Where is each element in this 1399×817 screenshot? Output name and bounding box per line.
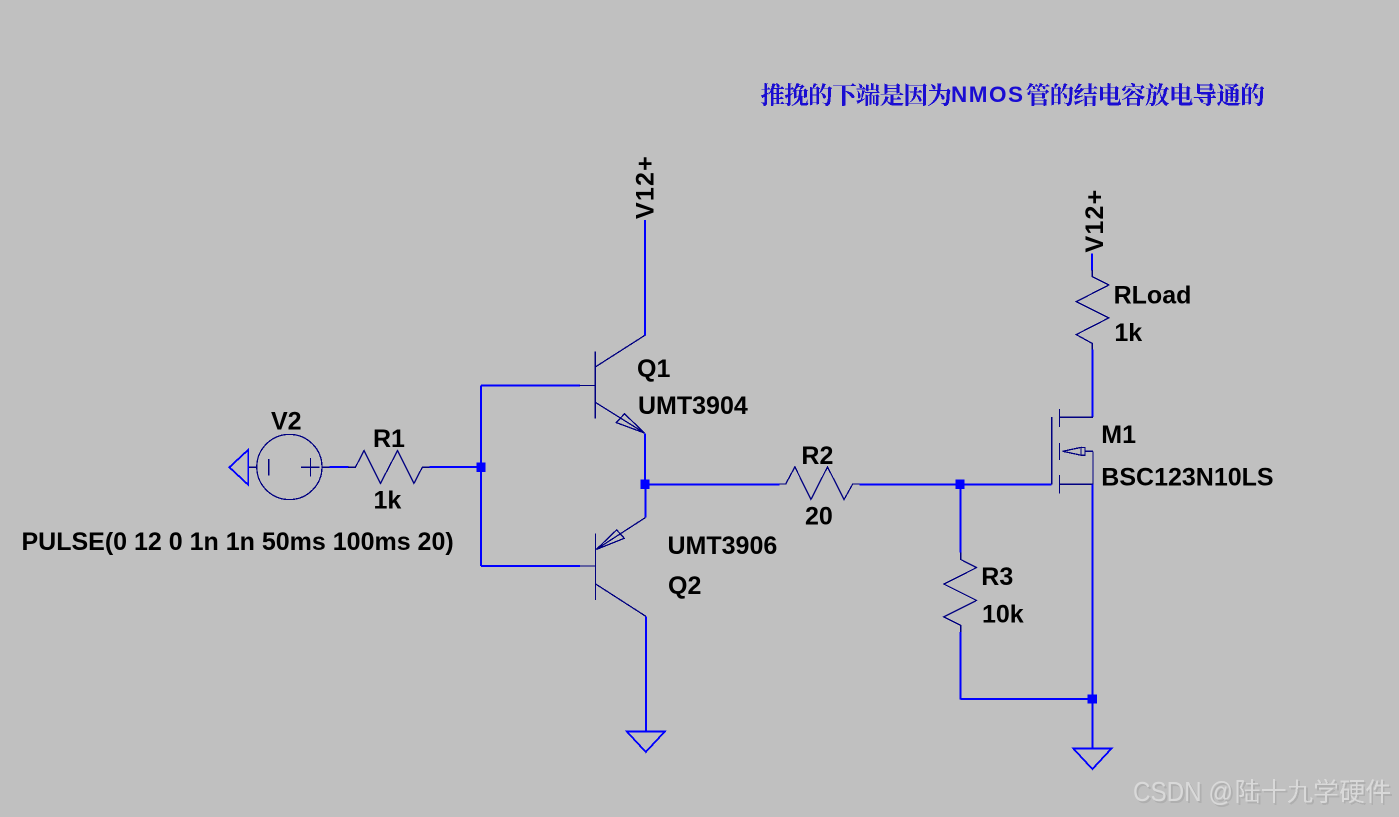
svg-text:V12+: V12+ <box>1081 189 1109 253</box>
node gate junction <box>955 480 964 489</box>
wire Q1 emitter to output node <box>644 433 646 484</box>
resistor R3 <box>944 552 977 632</box>
svg-text:R1: R1 <box>373 425 405 453</box>
svg-text:M1: M1 <box>1101 421 1136 449</box>
transistor M1 NMOS <box>1052 409 1093 494</box>
svg-text:R2: R2 <box>801 442 833 470</box>
wire bottom rail <box>961 698 1093 700</box>
resistor R1 <box>348 451 430 484</box>
svg-text:RLoad: RLoad <box>1114 282 1192 310</box>
svg-text:V2: V2 <box>271 408 302 436</box>
wire RLoad to M1 drain <box>1091 350 1093 417</box>
wire output node to R2 <box>645 483 780 485</box>
svg-text:Q1: Q1 <box>637 355 670 383</box>
wire V12+ to RLoad <box>1091 254 1093 271</box>
svg-text:20: 20 <box>805 503 833 531</box>
wire Q2 collector to ground <box>645 616 647 731</box>
wire node to R3 <box>960 484 962 552</box>
svg-text:NMOS: NMOS <box>951 82 1025 107</box>
svg-text:R3: R3 <box>981 563 1013 591</box>
svg-text:V12+: V12+ <box>632 155 660 219</box>
node output junction <box>640 480 649 489</box>
svg-text:1k: 1k <box>1114 319 1142 347</box>
wire R2 to gate node <box>860 483 1052 485</box>
svg-text:BSC123N10LS: BSC123N10LS <box>1101 463 1273 491</box>
wire to Q2 base <box>481 565 580 567</box>
wire to Q1 base <box>481 384 580 386</box>
voltage source V2 <box>257 434 322 499</box>
wire Q1 collector to V12+ <box>644 220 646 335</box>
svg-text:PULSE(0 12 0 1n 1n 50ms 100ms: PULSE(0 12 0 1n 1n 50ms 100ms 20) <box>22 528 454 556</box>
svg-text:UMT3906: UMT3906 <box>668 532 778 560</box>
wire M1 source to ground <box>1091 484 1093 749</box>
title text part 2 <box>1027 83 1050 106</box>
wire R1 to input node <box>430 466 481 468</box>
resistor RLoad <box>1076 270 1109 350</box>
svg-text:UMT3904: UMT3904 <box>638 392 748 420</box>
ground at V2 (rotated) <box>229 450 248 485</box>
svg-text:Q2: Q2 <box>668 572 701 600</box>
ground at M1 source <box>1073 749 1111 770</box>
transistor Q1 NPN <box>580 335 646 433</box>
title text part 1 <box>761 83 785 106</box>
resistor R2 <box>780 467 860 500</box>
node input junction <box>476 462 485 471</box>
node source junction <box>1088 694 1097 703</box>
wire V2 to R1 <box>330 466 349 468</box>
svg-text:1k: 1k <box>374 486 402 514</box>
svg-text:10k: 10k <box>982 600 1024 628</box>
wire output node to Q2 emitter <box>644 484 646 517</box>
ground at Q2 <box>627 732 665 753</box>
wire R3 to bottom rail <box>960 632 962 700</box>
wire base bus vertical <box>480 385 482 566</box>
transistor Q2 PNP <box>580 518 646 617</box>
svg-text:CSDN @: CSDN @ <box>1133 776 1233 807</box>
